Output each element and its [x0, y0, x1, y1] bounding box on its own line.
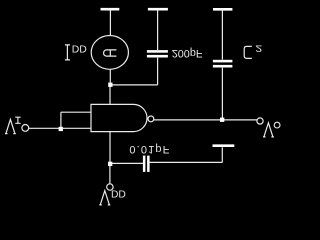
svg-text:2: 2: [255, 43, 262, 53]
svg-text:200pF: 200pF: [172, 47, 203, 59]
svg-text:0.01pF: 0.01pF: [129, 143, 170, 155]
svg-text:DD: DD: [72, 45, 87, 56]
svg-text:DD: DD: [111, 190, 126, 201]
